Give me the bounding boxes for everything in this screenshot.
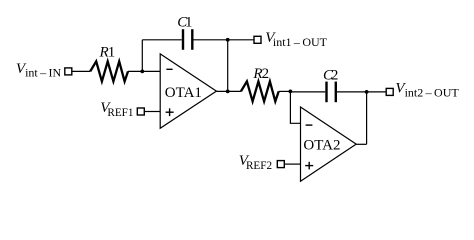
svg-text:OTA2: OTA2 xyxy=(303,137,340,153)
terminal IN xyxy=(65,68,72,75)
label Vint1-OUT xyxy=(265,30,327,49)
label Vint-IN xyxy=(16,61,62,80)
wire REF2 to OTA2 plus input xyxy=(285,163,301,165)
node junction at feedback tap xyxy=(140,70,144,74)
resistor R2 xyxy=(241,81,279,101)
wire C1 right plate to OUT1 terminal xyxy=(194,39,254,41)
wire REF1 to OTA1 plus input xyxy=(145,111,160,113)
label Vint2-OUT xyxy=(395,80,459,99)
svg-text:R1: R1 xyxy=(99,44,116,60)
svg-text:OTA1: OTA1 xyxy=(165,85,202,101)
terminal REF2 xyxy=(277,161,284,168)
node junction OTA2 output top xyxy=(365,90,369,94)
wire OTA2 output to riser xyxy=(356,143,366,145)
wire stage2 input drop xyxy=(290,91,300,123)
op-amp OTA1 xyxy=(160,54,216,128)
node junction stage2 input tap xyxy=(289,90,293,94)
label C1 xyxy=(177,15,192,31)
svg-text:C2: C2 xyxy=(323,68,338,84)
terminal REF1 xyxy=(137,108,144,115)
wire R2 to C2 left plate xyxy=(279,90,291,92)
capacitor C2 xyxy=(327,82,336,103)
minus sign OTA2 xyxy=(306,124,313,126)
label C2 xyxy=(323,68,338,84)
label R2 xyxy=(252,66,269,82)
resistor R1 xyxy=(90,61,128,81)
wire output branch vertical xyxy=(227,40,229,92)
op-amp OTA2 xyxy=(301,107,357,181)
wire feedback vertical left xyxy=(141,40,143,72)
wire OTA2 output riser xyxy=(366,92,368,144)
wire IN to R1 xyxy=(73,70,91,72)
capacitor C1 xyxy=(183,29,192,50)
svg-text:R2: R2 xyxy=(252,66,269,82)
svg-text:C1: C1 xyxy=(177,15,192,31)
label VREF1 xyxy=(100,100,133,119)
label VREF2 xyxy=(239,153,272,172)
node junction top of output branch xyxy=(226,38,230,42)
minus sign OTA1 xyxy=(166,68,172,70)
wire C2 right plate to OUT2 terminal xyxy=(337,91,386,93)
wire top to C1 left plate xyxy=(142,39,182,41)
plus sign OTA2 xyxy=(305,165,313,167)
wire R1 to OTA1 minus input xyxy=(128,70,160,72)
plus sign OTA1 xyxy=(166,111,174,113)
wire OTA1 output to R2 xyxy=(216,90,241,92)
terminal OUT2 xyxy=(386,88,393,95)
node junction OTA1 output xyxy=(226,90,230,94)
terminal OUT1 xyxy=(254,36,261,43)
label R1 xyxy=(99,44,116,60)
